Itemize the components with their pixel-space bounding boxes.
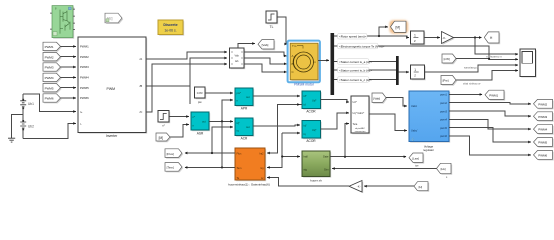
signal label is_c — [338, 77, 372, 83]
From tag PWM6 — [43, 94, 62, 104]
svg-text:PWM3: PWM3 — [80, 65, 89, 69]
svg-text:ACOR: ACOR — [306, 109, 316, 113]
svg-text:pwm3: pwm3 — [440, 109, 447, 113]
PMSM motor block (yellow, selected) — [288, 41, 320, 83]
wire PWM4 — [61, 76, 76, 78]
wire stator current is_a — [334, 61, 396, 63]
three-phase measurement block — [230, 48, 246, 69]
svg-text:Uq*: Uq* — [312, 128, 316, 132]
From tag ia — [442, 54, 457, 64]
svg-text:iq*: iq* — [304, 124, 307, 128]
gain triangle (speed scaling) — [442, 32, 455, 45]
wire gate6 to goto PWM6 — [449, 136, 531, 155]
wire ASR out to ACR in1 — [222, 120, 233, 122]
svg-text:Flux: Flux — [237, 151, 243, 155]
vertical link ASR column — [221, 121, 223, 167]
svg-text:out: out — [246, 95, 250, 99]
svg-text:1: 1 — [414, 34, 416, 38]
Goto tag PWM1 — [485, 90, 505, 100]
svg-text:<Rotor speed (wm)>: <Rotor speed (wm)> — [339, 35, 367, 39]
wire hall to dq theta — [345, 124, 349, 157]
wire gate2 to goto PWM2 — [449, 103, 531, 104]
Goto tag Flux — [165, 149, 183, 159]
svg-text:pwm6: pwm6 — [440, 134, 447, 138]
svg-text:Ub2: Ub2 — [28, 124, 34, 128]
svg-text:[Hs]: [Hs] — [441, 167, 446, 171]
svg-text:ACR: ACR — [241, 137, 248, 141]
wire torque Te — [334, 46, 518, 59]
wire measurement to Vabc goto — [238, 44, 255, 49]
svg-text:Iab: Iab — [235, 59, 239, 63]
wire PWM1 — [61, 45, 76, 47]
APR regulator (cyan) — [235, 88, 254, 107]
svg-text:PWM1: PWM1 — [45, 45, 54, 49]
wire H to gain (leftwards) — [364, 185, 414, 187]
svg-text:sanxiang dl: sanxiang dl — [464, 66, 479, 70]
svg-text:/C: /C — [140, 110, 143, 114]
Goto tag PWM5 — [534, 138, 554, 148]
wire measurement c to motor C — [244, 64, 287, 72]
svg-text:sig: sig — [304, 167, 308, 171]
ACOR2 regulator (cyan) — [302, 121, 322, 140]
svg-text:[Flux]: [Flux] — [167, 152, 175, 156]
wire rotor speed wm — [334, 36, 409, 38]
wire hall to green in1 — [282, 156, 300, 158]
svg-text:Discrete: Discrete — [163, 23, 177, 27]
svg-text:ACOR: ACOR — [306, 139, 316, 143]
svg-text:Uq* Uabc*: Uq* Uabc* — [353, 112, 365, 115]
svg-text:pw*: pw* — [237, 91, 241, 95]
wire TL to motor Tm — [277, 17, 287, 44]
Goto tag M (highlighted orange) — [390, 20, 409, 33]
svg-text:huoerxinhao(1) : Gatexinhao(6): huoerxinhao(1) : Gatexinhao(6) — [228, 182, 270, 186]
svg-text:<Stator current is_b (A)>: <Stator current is_b (A)> — [339, 68, 372, 72]
Goto tag PWM2 — [534, 99, 554, 109]
svg-text:/B: /B — [140, 84, 143, 88]
svg-text:toe: toe — [415, 164, 419, 168]
wire Vabc tag to blue block in1 — [386, 98, 407, 106]
svg-text:PWM4: PWM4 — [538, 128, 547, 132]
Goto tag PWM6 — [534, 151, 554, 161]
svg-text:PWM3: PWM3 — [45, 66, 54, 70]
wire measurement a to motor A — [244, 52, 287, 56]
svg-text:<Stator current is_c (A)>: <Stator current is_c (A)> — [339, 78, 372, 82]
svg-text:Ud*: Ud* — [353, 101, 357, 104]
svg-text:Gate: Gate — [323, 155, 329, 159]
mux bar for currents — [396, 56, 399, 85]
constant 0.83 — [195, 87, 207, 99]
svg-text:[M]: [M] — [396, 25, 401, 29]
svg-text:PWM2: PWM2 — [45, 55, 54, 59]
wire Pout to scope in4 — [456, 71, 518, 81]
svg-text:PMSM motor: PMSM motor — [294, 82, 315, 86]
svg-text:PWM1: PWM1 — [489, 93, 498, 97]
svg-text:PWM4: PWM4 — [45, 76, 54, 80]
Goto tag Tem — [165, 163, 183, 173]
svg-text:pwm5: pwm5 — [440, 126, 447, 130]
wire 0.83 to APR in1 — [205, 92, 233, 94]
svg-text:1e-06 s.: 1e-06 s. — [164, 28, 176, 32]
signal label is_b — [338, 67, 373, 73]
wire APR out to ACOR1 in1 — [253, 95, 300, 97]
node on wm wire — [378, 35, 380, 37]
svg-text:pwm4: pwm4 — [440, 118, 447, 122]
svg-text:/A: /A — [140, 57, 143, 61]
From tag PWM3 — [43, 63, 62, 73]
wire branch to goto M — [379, 27, 388, 36]
wire gate4 to goto PWM4 — [449, 119, 531, 129]
svg-text:ASR: ASR — [197, 131, 204, 135]
signal label is_a — [338, 59, 373, 65]
wire motor m to bus selector — [318, 59, 329, 61]
From tag M (speed feedback) — [156, 133, 171, 142]
wire PWM2 — [61, 56, 76, 58]
DC source Ub2 — [20, 120, 34, 130]
svg-text:<Stator current is_a (A)>: <Stator current is_a (A)> — [339, 60, 372, 64]
svg-text:/+: /+ — [80, 110, 83, 114]
svg-text:A: A — [292, 54, 294, 58]
svg-text:Ub1: Ub1 — [28, 102, 34, 106]
IGBT bridge block (green) — [50, 6, 75, 39]
wire dq out to blue block in2 — [369, 114, 407, 131]
DC source Ub1 — [20, 94, 34, 139]
Goto tag PWM3 — [534, 112, 554, 122]
wire ACR in2 from vertical — [212, 127, 233, 153]
wire ASR out to APR in2 — [209, 100, 233, 121]
wire counter out2 to tag Tem — [185, 166, 235, 168]
svg-text:pwm1: pwm1 — [440, 93, 447, 97]
svg-text:n*: n* — [193, 115, 195, 119]
wire gain out to counter in3 — [267, 178, 349, 187]
svg-text:[nW]: [nW] — [444, 57, 450, 61]
Goto tag PWM4 — [534, 125, 554, 135]
svg-text:PWM5: PWM5 — [45, 86, 54, 90]
unit delay z-1 (speed) — [411, 31, 426, 45]
powergui block (yellow) — [158, 20, 184, 36]
node after gain — [474, 36, 476, 38]
From tag PWM2 — [43, 53, 62, 63]
svg-text:PWM5: PWM5 — [538, 141, 547, 145]
svg-text:[M]: [M] — [159, 136, 164, 140]
svg-text:PWM6: PWM6 — [45, 97, 54, 101]
svg-text:⚓: ⚓ — [411, 137, 415, 141]
svg-text:PWM3: PWM3 — [538, 115, 547, 119]
wire speed to scope in1 — [475, 38, 518, 55]
svg-text:<Electromagnetic torque Te (N*: <Electromagnetic torque Te (N*m)> — [339, 44, 385, 48]
wire feedback to counter in2 and ACOR2 in2 — [267, 133, 282, 167]
svg-text:out: out — [202, 120, 206, 124]
svg-text:Inverter: Inverter — [106, 134, 118, 138]
svg-text:hall: hall — [304, 155, 308, 159]
wire measurement b to motor B — [244, 58, 287, 64]
wire /C to measurement C — [146, 64, 227, 112]
svg-text:regulator: regulator — [423, 148, 434, 152]
wire /B to measurement B — [146, 58, 227, 86]
svg-text:0.83: 0.83 — [197, 91, 203, 95]
svg-text:Ud*: Ud* — [312, 99, 316, 103]
svg-text:[Vab]: [Vab] — [373, 96, 380, 100]
svg-text:conversion: conversion — [355, 130, 366, 133]
wire M to ASR in2 — [170, 125, 189, 138]
step block TL — [266, 11, 278, 24]
svg-text:zitai xinhao w: zitai xinhao w — [463, 81, 481, 85]
signal label Electromagnetic torque — [338, 43, 385, 49]
svg-text:TL: TL — [270, 25, 274, 29]
svg-text:huoer xh: huoer xh — [310, 178, 322, 182]
wire battery plus to inverter /+ — [23, 94, 76, 112]
ground symbol — [8, 131, 15, 143]
wire gain to goto H — [454, 37, 482, 39]
svg-text:[Lsw]: [Lsw] — [412, 156, 419, 160]
wire ACR out to ACOR2 in1 — [253, 125, 300, 126]
signal label Rotor speed — [338, 33, 368, 39]
wire battery minus to inverter /- — [23, 123, 76, 138]
svg-text:z: z — [414, 39, 416, 43]
wire currents to scope in3 — [425, 65, 519, 72]
svg-text:PWM2: PWM2 — [80, 55, 89, 59]
hall decoder block (green gradient) — [302, 151, 331, 178]
wire z-1 to gain — [424, 37, 440, 39]
gain triangle (flipped, to counter) — [349, 181, 363, 194]
svg-text:[Pw]: [Pw] — [443, 79, 449, 83]
From tag PWM4 — [43, 73, 62, 83]
counter block (orange, flipped) — [235, 148, 266, 181]
wire ACOR2 out to dq block in2 — [321, 113, 349, 129]
svg-text:PWM2: PWM2 — [538, 102, 547, 106]
ASR speed regulator (cyan) — [191, 112, 210, 131]
wire battery midpoint to ground — [12, 114, 24, 130]
wire feedback to counter in1 and ACOR1 in2 — [267, 105, 302, 154]
svg-text:[H]: [H] — [419, 185, 423, 189]
wire PWM6 — [61, 97, 76, 99]
bus selector bar — [331, 33, 335, 95]
ACOR1 regulator (cyan) — [302, 91, 322, 110]
scope block — [520, 49, 537, 78]
wire PWM3 — [61, 66, 76, 68]
svg-text:/-: /- — [80, 122, 82, 126]
svg-text:PWM6: PWM6 — [538, 154, 547, 158]
wire gate1 to goto PWM1 — [449, 93, 482, 95]
ACR regulator (cyan) — [235, 118, 254, 137]
svg-text:[Tem]: [Tem] — [167, 166, 175, 170]
svg-text:[Vab]: [Vab] — [262, 43, 269, 47]
From tag PWM5 — [43, 84, 62, 94]
Inverter subsystem block — [78, 37, 147, 134]
Goto tag H — [484, 32, 500, 44]
svg-text:id*: id* — [304, 94, 307, 98]
svg-text:-K-: -K- — [357, 185, 361, 189]
wire hall gate out to goto tag — [330, 156, 406, 158]
wire gate3 to goto PWM3 — [449, 111, 531, 116]
wire ACOR1 out to dq block in1 — [321, 100, 349, 103]
svg-text:Uabc': Uabc' — [411, 129, 418, 133]
wire /A to measurement A — [146, 52, 227, 59]
wire stator current is_b — [334, 69, 396, 71]
svg-text:Uabc: Uabc — [411, 104, 418, 108]
svg-text:1: 1 — [414, 68, 416, 72]
From tag PWM1 — [43, 42, 62, 52]
voltage regulator block (blue) — [409, 91, 450, 143]
unit delay z-1 (currents) — [411, 65, 426, 80]
svg-text:Sim: Sim — [324, 167, 328, 171]
svg-text:PWM1: PWM1 — [80, 45, 89, 49]
svg-text:iq*: iq* — [237, 121, 240, 125]
From tag Hm (flipped) — [437, 163, 453, 175]
svg-text:pwm2: pwm2 — [440, 101, 447, 105]
speed reference step block — [158, 111, 170, 124]
svg-text:-K-: -K- — [442, 36, 446, 40]
dq to ABC conversion block — [351, 96, 370, 134]
svg-text:Tm: Tm — [292, 44, 297, 48]
wire stub vertical — [189, 86, 191, 104]
wire stator current is_c — [334, 79, 396, 81]
svg-text:PWM4: PWM4 — [80, 76, 89, 80]
svg-text:PWM5: PWM5 — [80, 86, 89, 90]
wire PWM5 — [61, 87, 76, 89]
wire step to ASR in1 — [169, 116, 189, 118]
svg-text:wr: wr — [261, 177, 264, 180]
svg-text:Vab: Vab — [234, 53, 239, 57]
From tag Pout — [441, 76, 457, 86]
From tag (top, white pentagon with icon) — [105, 13, 123, 24]
svg-text:dq to ABC: dq to ABC — [355, 127, 365, 130]
svg-text:PWM: PWM — [107, 87, 116, 91]
wire mux to unit delay 2 — [399, 71, 409, 73]
svg-text:Teta: Teta — [353, 123, 358, 126]
From tag H (flipped) — [414, 182, 429, 192]
wire Hm to hall in2 — [332, 168, 436, 170]
svg-text:APR: APR — [241, 107, 248, 111]
wire counter out1 to tag Flux — [185, 152, 235, 154]
From tag Vabc (to voltage regulator) — [372, 93, 387, 104]
svg-text:Tem: Tem — [237, 166, 242, 170]
svg-text:ha2: ha2 — [260, 152, 265, 155]
svg-text:PWM6: PWM6 — [80, 96, 89, 100]
svg-text:out: out — [246, 125, 250, 129]
Goto tag Vabc — [258, 40, 275, 51]
wire from tag ia to node — [456, 58, 489, 60]
wire gate5 to goto PWM5 — [449, 128, 531, 142]
Goto tag gates — [409, 153, 424, 164]
